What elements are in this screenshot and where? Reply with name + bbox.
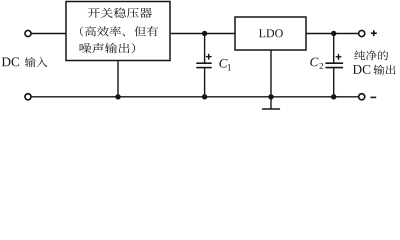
wire: switching regulator ground stub [117, 61, 119, 97]
node: junction C2 top [331, 31, 336, 36]
node: junction C2 bottom [331, 94, 336, 99]
terminal: DC input - (bottom-left) [25, 94, 31, 100]
label: 纯净的 DC 输出 [353, 50, 396, 74]
switching regulator box U1 [66, 2, 170, 61]
wire: C2 upper lead [333, 34, 335, 64]
terminal: DC output + (top-right) [359, 30, 365, 36]
node: junction C1 top [202, 31, 207, 36]
node: junction LDO ground on bottom rail [268, 94, 273, 99]
capacitor C1 [196, 54, 211, 68]
wire: C2 lower lead [333, 68, 335, 97]
wire: bottom rail [31, 96, 358, 98]
node: junction on bottom rail below switching regulator [115, 94, 120, 99]
wire: switching regulator output to LDO input [171, 33, 235, 35]
ground symbol [262, 97, 280, 109]
wire: C1 upper lead [204, 34, 206, 64]
label: + polarity at output [371, 30, 377, 36]
wire: top rail, + input terminal to switching regulator [31, 33, 66, 35]
terminal: DC input + (top-left) [25, 30, 31, 36]
terminal: DC output - (bottom-right) [359, 94, 365, 100]
label C1 [219, 59, 231, 70]
label: DC 输入 [2, 57, 48, 67]
label: - polarity at output [371, 96, 377, 98]
wire: C1 lower lead [204, 68, 206, 97]
node: junction C1 bottom [202, 94, 207, 99]
capacitor C2 [325, 54, 343, 68]
wire: LDO output to + output terminal [306, 33, 358, 35]
LDO regulator box U2 [235, 17, 306, 50]
wire: LDO ground stub [270, 50, 272, 97]
label C2 [310, 58, 323, 69]
